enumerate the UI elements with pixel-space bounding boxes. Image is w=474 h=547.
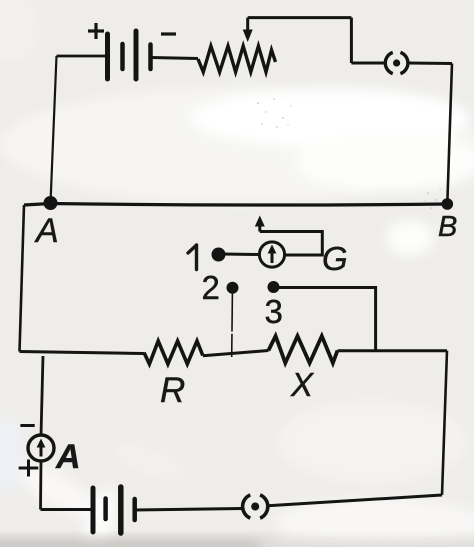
- wire: galvanometer bracket to jockey: [260, 232, 323, 256]
- resistor R zigzag: [144, 341, 203, 364]
- svg-text:3: 3: [265, 293, 283, 330]
- wire: R to X: [203, 351, 269, 356]
- wire: left vertical A down to resistor row: [20, 205, 25, 352]
- resistor X zigzag: [268, 336, 337, 363]
- battery B2 (bottom): plates: [93, 487, 135, 533]
- wire: meter M1 to right corner: [408, 62, 452, 66]
- svg-text:G: G: [322, 240, 348, 277]
- wire: battery B2 to bottom-left corner: [41, 508, 94, 511]
- svg-text:R: R: [160, 371, 185, 410]
- label 1: [188, 245, 197, 270]
- svg-text:B: B: [438, 211, 457, 243]
- wire: ammeter up to resistor row: [41, 356, 43, 436]
- wire: terminal 1 to galvanometer: [222, 253, 260, 257]
- galvanometer G: [259, 242, 284, 267]
- terminal 1: [212, 248, 226, 262]
- battery B1 minus sign: [161, 32, 176, 35]
- wire: X output to right corner: [338, 349, 448, 352]
- wire: bottom right sloped to meter M2: [268, 495, 442, 506]
- jockey arrow: [255, 216, 265, 232]
- wire: into meter M1: [351, 62, 385, 65]
- node B: [442, 198, 454, 210]
- wire: horizontal to resistor R: [20, 352, 145, 354]
- wire: right vertical down: [442, 351, 447, 495]
- battery B1 plus sign: [88, 23, 104, 39]
- svg-text:A: A: [34, 212, 59, 250]
- battery B1 (top): plates: [108, 31, 151, 79]
- wire: top-left horizontal into battery: [57, 55, 108, 58]
- wire: thin tap line from terminal 2 down to R-X junction: [231, 294, 234, 358]
- ammeter A (circle with arrow): [28, 435, 54, 461]
- terminal 2: [227, 282, 239, 294]
- svg-text:2: 2: [202, 269, 220, 306]
- svg-text:A: A: [55, 438, 81, 476]
- wire: right drop to node B: [447, 64, 452, 205]
- wire: left drop from battery wire to node A: [51, 56, 57, 203]
- wire: meter M2 to bottom battery: [135, 509, 243, 511]
- meter M2 (bottom, circle with dot): [243, 494, 268, 519]
- rheostat wiper arrow: [243, 18, 253, 42]
- wire: terminal 3 right and down to X output: [278, 288, 376, 351]
- svg-text:X: X: [290, 366, 315, 403]
- wire: battery to rheostat: [151, 58, 199, 59]
- node A: [44, 196, 58, 210]
- wire AB (main horizontal): [24, 204, 447, 206]
- wire: wiper tap horizontal: [248, 16, 352, 19]
- wire: bottom-left vertical up to ammeter: [39, 461, 42, 510]
- meter M1 (top, circle with dot): [385, 52, 408, 75]
- terminal 3: [268, 281, 280, 293]
- ammeter plus sign: [19, 460, 39, 477]
- ammeter minus sign: [20, 424, 34, 427]
- wire: tap vertical down: [350, 18, 353, 63]
- rheostat RH zigzag: [198, 46, 276, 72]
